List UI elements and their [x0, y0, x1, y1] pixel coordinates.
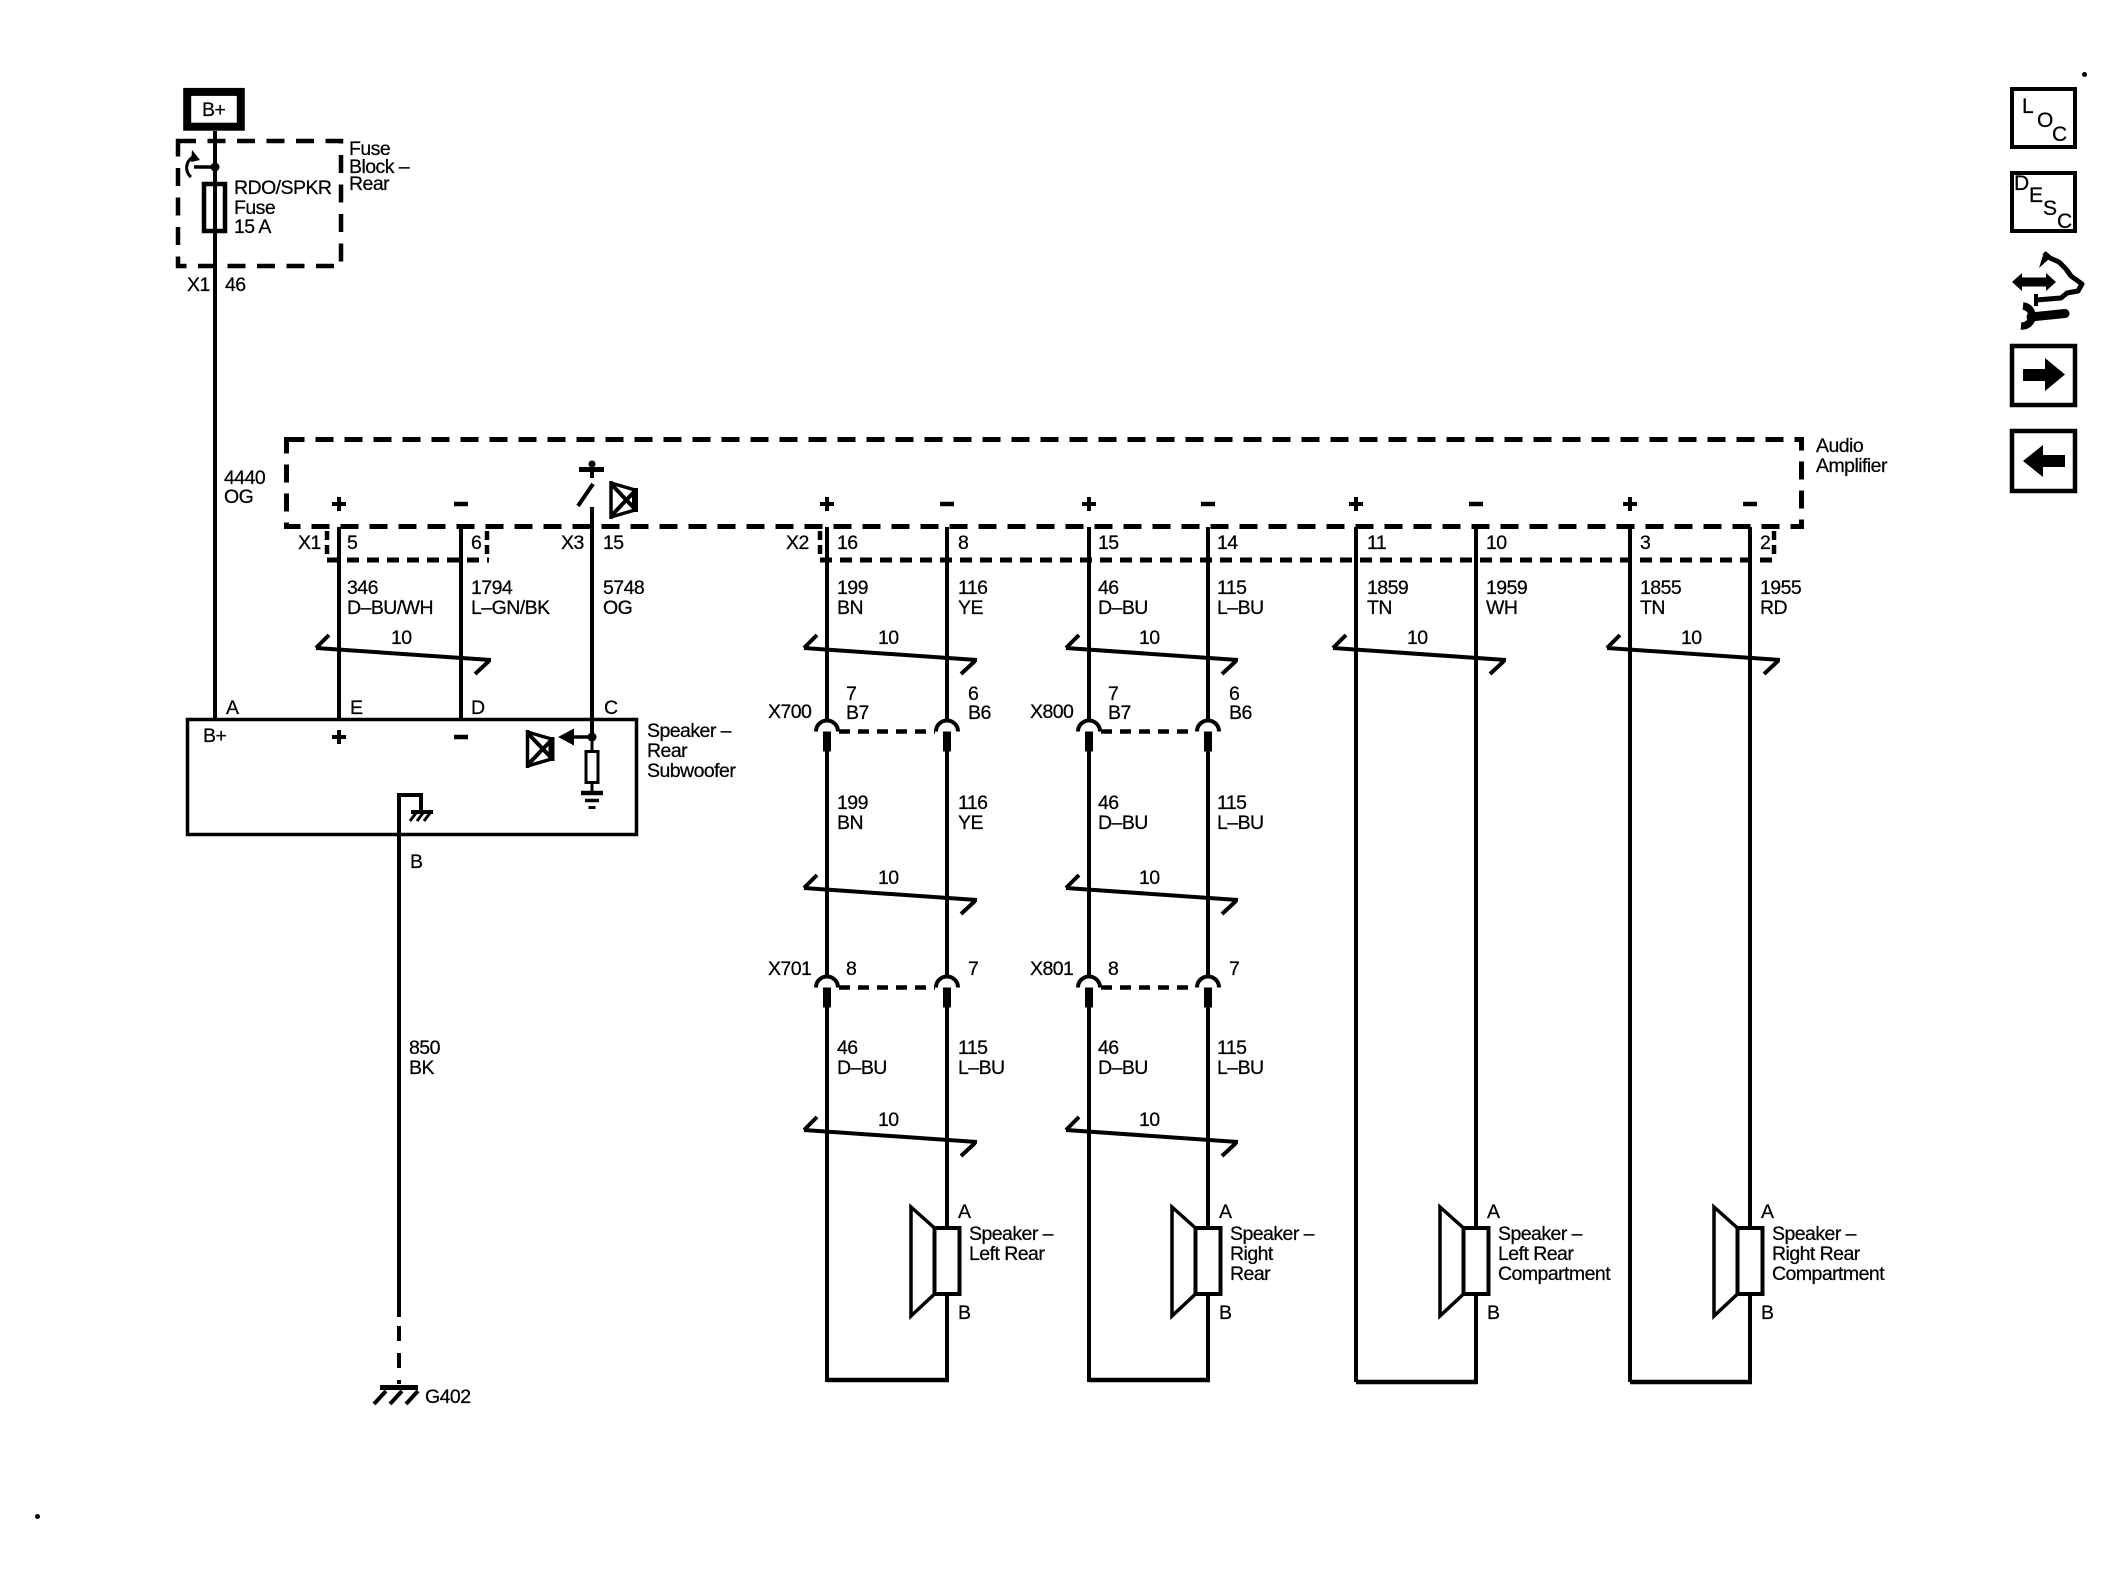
audio amplifier label [1816, 435, 1888, 477]
svg-text:11: 11 [1367, 532, 1386, 554]
connector X801 [1030, 958, 1239, 1008]
svg-text:8: 8 [1108, 958, 1118, 980]
wire 46 D-BU segment X801-speaker [1087, 1008, 1091, 1383]
twisted pair mark (1356,1476) y648 [1333, 627, 1506, 674]
svg-text:10: 10 [878, 1109, 899, 1131]
svg-text:C: C [604, 697, 618, 719]
svg-text:X801: X801 [1030, 958, 1073, 980]
svg-text:X800: X800 [1030, 701, 1074, 723]
wire label 199 BN mid [837, 792, 868, 834]
wire label 46 D-BU mid [1098, 792, 1148, 834]
wire 46 D-BU segment X800-X801 [1087, 751, 1091, 977]
pin 15 number label x592 [603, 532, 624, 554]
svg-text:OG: OG [603, 597, 632, 619]
svg-text:7: 7 [1229, 958, 1239, 980]
fuse clip symbol [187, 150, 220, 177]
amp + mark x339 [332, 497, 346, 511]
svg-text:5: 5 [347, 532, 358, 554]
svg-text:A: A [958, 1201, 971, 1223]
svg-text:Audio: Audio [1816, 435, 1864, 457]
wire 1959 WH run upper [1474, 527, 1478, 1228]
wire B+ feed [213, 131, 217, 270]
svg-text:46: 46 [837, 1037, 858, 1059]
svg-text:E: E [2029, 184, 2043, 207]
subwoofer label [647, 720, 736, 782]
amp + mark x1089 [1082, 497, 1096, 511]
twisted pair mark (1089,1208) y888 [1066, 867, 1238, 914]
svg-text:Speaker –: Speaker – [1772, 1223, 1857, 1245]
node C junction dot [588, 719, 597, 742]
svg-text:346: 346 [347, 577, 378, 599]
svg-text:10: 10 [391, 627, 412, 649]
svg-text:X701: X701 [768, 958, 811, 980]
wire label 46 D–BU [1098, 577, 1148, 619]
wire 850 BK dashed segment [397, 1326, 401, 1384]
svg-text:B6: B6 [1229, 702, 1252, 724]
connector X2 label [786, 532, 809, 554]
connector X2 bracket [820, 531, 1774, 560]
svg-text:YE: YE [958, 812, 983, 834]
svg-text:Rear: Rear [647, 740, 688, 762]
speaker right rear [1172, 1201, 1315, 1324]
svg-text:A: A [1487, 1201, 1500, 1223]
loop wire pair3 [1356, 1294, 1478, 1384]
wire label 115 L-BU mid [1217, 792, 1264, 834]
amp - mark x1476 [1469, 502, 1483, 507]
svg-text:B: B [1487, 1302, 1499, 1324]
svg-text:TN: TN [1640, 597, 1665, 619]
wire 115 L-BU segment X801-speaker [1206, 1008, 1210, 1229]
svg-text:1794: 1794 [471, 577, 513, 599]
wire 850 BK [399, 793, 441, 1317]
wire 199 BN segment amp-X700 [825, 527, 829, 721]
twisted pair mark (339,461) y648 [316, 627, 491, 674]
svg-text:Speaker –: Speaker – [1230, 1223, 1315, 1245]
svg-text:BN: BN [837, 812, 863, 834]
connector X3 label [561, 532, 584, 554]
twisted pair mark (827,947) y1130 [804, 1109, 977, 1156]
svg-text:D: D [2014, 172, 2029, 195]
ground G402 [374, 1386, 471, 1408]
svg-text:B: B [1761, 1302, 1773, 1324]
wire label 1794 L–GN/BK [471, 577, 550, 619]
wire label 346 D–BU/WH [347, 577, 433, 619]
wire 346 D-BU/WH segment [337, 527, 341, 718]
svg-text:S: S [2043, 197, 2057, 220]
svg-text:1859: 1859 [1367, 577, 1408, 599]
speaker left rear compartment [1440, 1201, 1611, 1324]
connector X700 [768, 683, 991, 752]
page mark top right [2082, 72, 2087, 77]
svg-text:G402: G402 [425, 1386, 471, 1408]
pin 14 number label x1208 [1217, 532, 1238, 554]
amp - mark x947 [940, 502, 954, 507]
wire 116 YE segment amp-X700 [945, 527, 949, 721]
amp tap symbol X3 [578, 461, 604, 507]
svg-text:2: 2 [1760, 532, 1770, 554]
svg-text:B: B [1219, 1302, 1231, 1324]
svg-text:Right Rear: Right Rear [1772, 1243, 1861, 1265]
svg-text:YE: YE [958, 597, 983, 619]
svg-text:L–BU: L–BU [958, 1057, 1005, 1079]
pin 10 number label x1476 [1486, 532, 1507, 554]
svg-text:6: 6 [471, 532, 481, 554]
subwoofer pin letters [226, 697, 618, 719]
wire 5748 OG segment [590, 507, 594, 718]
twisted pair mark (1089,1208) y1130 [1066, 1109, 1238, 1156]
subwoofer - terminal [454, 735, 468, 740]
fuse RDO/SPKR 15 A [204, 177, 332, 238]
svg-text:1959: 1959 [1486, 577, 1527, 599]
svg-text:B7: B7 [846, 702, 869, 724]
wire 46 D-BU segment X701-speaker [825, 1008, 829, 1383]
connector X1 label [298, 532, 321, 554]
pin 6 number label x461 [471, 532, 481, 554]
svg-text:C: C [2057, 210, 2072, 233]
subwoofer chassis ground (pin B) [399, 795, 433, 821]
svg-text:O: O [2037, 109, 2053, 132]
loop wire pair2 [1089, 1294, 1210, 1382]
icon wrench [2021, 306, 2065, 326]
pin 15 number label x1089 [1098, 532, 1119, 554]
svg-text:A: A [1761, 1201, 1774, 1223]
svg-text:Speaker –: Speaker – [647, 720, 732, 742]
wire label 1859 TN [1367, 577, 1408, 619]
svg-text:WH: WH [1486, 597, 1517, 619]
svg-text:X1: X1 [298, 532, 321, 554]
connector X701 [768, 958, 978, 1008]
subwoofer B+ terminal [203, 725, 226, 747]
subwoofer earth ground [581, 793, 603, 808]
svg-text:D: D [471, 697, 485, 719]
svg-text:10: 10 [1139, 867, 1160, 889]
wire label 1855 TN [1640, 577, 1682, 619]
svg-text:A: A [226, 697, 239, 719]
subwoofer internal resistor [586, 737, 598, 791]
svg-text:Left Rear: Left Rear [1498, 1243, 1574, 1265]
svg-text:3: 3 [1640, 532, 1650, 554]
svg-text:10: 10 [878, 867, 899, 889]
wire label 199 BN [837, 577, 868, 619]
audio amplifier box [287, 440, 1802, 527]
wire label 46 D-BU lower [837, 1037, 887, 1079]
wire 116 YE segment X700-X701 [945, 751, 949, 977]
icon right arrow box [2012, 346, 2075, 405]
wire label 46 D-BU lower2 [1098, 1037, 1148, 1079]
speaker left rear [911, 1201, 1054, 1324]
svg-text:10: 10 [1407, 627, 1428, 649]
amp - mark x1208 [1201, 502, 1215, 507]
svg-text:10: 10 [1139, 627, 1160, 649]
svg-text:TN: TN [1367, 597, 1392, 619]
fuse block label Fuse Block - Rear [349, 138, 410, 195]
wire 199 BN segment X700-X701 [825, 751, 829, 977]
svg-text:B+: B+ [202, 99, 225, 121]
svg-text:10: 10 [1139, 1109, 1160, 1131]
wire 115 L-BU segment amp-X800 [1206, 527, 1210, 721]
icon component double arrow [2012, 273, 2056, 291]
svg-text:Subwoofer: Subwoofer [647, 760, 736, 782]
svg-text:1855: 1855 [1640, 577, 1682, 599]
subwoofer + terminal [332, 730, 346, 744]
svg-text:L: L [2022, 95, 2033, 118]
svg-text:D–BU: D–BU [837, 1057, 887, 1079]
svg-text:Speaker –: Speaker – [1498, 1223, 1583, 1245]
loop wire pair1 [827, 1294, 949, 1382]
svg-text:D–BU/WH: D–BU/WH [347, 597, 433, 619]
wire label 116 YE [958, 577, 987, 619]
svg-text:X2: X2 [786, 532, 809, 554]
wire 1859 TN run [1354, 527, 1358, 1382]
wire 115 L-BU segment X800-X801 [1206, 751, 1210, 977]
wire 115 L-BU segment X701-speaker [945, 1008, 949, 1229]
pin 11 number label x1356 [1367, 532, 1386, 554]
svg-text:16: 16 [837, 532, 858, 554]
svg-text:115: 115 [958, 1037, 988, 1059]
svg-text:B: B [958, 1302, 970, 1324]
svg-text:115: 115 [1217, 577, 1247, 599]
wire label 1955 RD [1760, 577, 1802, 619]
svg-text:L–BU: L–BU [1217, 1057, 1264, 1079]
svg-text:116: 116 [958, 577, 987, 599]
pin 16 number label x827 [837, 532, 858, 554]
svg-text:15 A: 15 A [234, 216, 271, 238]
svg-text:B: B [410, 851, 422, 873]
amp + mark x1356 [1349, 497, 1363, 511]
svg-text:RD: RD [1760, 597, 1788, 619]
wire 1955 RD run upper [1748, 527, 1752, 1228]
svg-text:46: 46 [1098, 577, 1119, 599]
svg-text:X1: X1 [187, 274, 210, 296]
amp - mark x461 [454, 502, 468, 507]
svg-text:10: 10 [1486, 532, 1507, 554]
wire label 1959 WH [1486, 577, 1527, 619]
svg-text:Rear: Rear [1230, 1263, 1271, 1285]
svg-text:L–BU: L–BU [1217, 812, 1264, 834]
svg-text:BN: BN [837, 597, 863, 619]
connector X1 pin 46 label [187, 274, 246, 296]
wire label 5748 OG [603, 577, 644, 619]
amp - mark x1750 [1743, 502, 1757, 507]
icon DESC box [2012, 172, 2075, 233]
wire label 115 L-BU lower2 [1217, 1037, 1264, 1079]
twisted pair mark (827,947) y888 [804, 867, 977, 914]
icon LOC box [2012, 89, 2075, 147]
amp + mark x1630 [1623, 497, 1637, 511]
svg-text:D–BU: D–BU [1098, 1057, 1148, 1079]
svg-text:46: 46 [225, 274, 246, 296]
svg-text:5748: 5748 [603, 577, 644, 599]
svg-text:BK: BK [409, 1057, 434, 1079]
wire 1855 TN run [1628, 527, 1632, 1382]
amp + mark x827 [820, 497, 834, 511]
connector X800 [1030, 683, 1252, 752]
svg-text:199: 199 [837, 577, 868, 599]
svg-text:Left Rear: Left Rear [969, 1243, 1045, 1265]
svg-text:46: 46 [1098, 1037, 1119, 1059]
svg-text:10: 10 [1681, 627, 1702, 649]
pin B letter [410, 851, 422, 873]
amp muted-speaker icon [611, 481, 635, 519]
wire 46 D-BU segment amp-X800 [1087, 527, 1091, 721]
svg-text:Compartment: Compartment [1772, 1263, 1885, 1285]
svg-text:Amplifier: Amplifier [1816, 455, 1888, 477]
wire label 115 L-BU lower [958, 1037, 1005, 1079]
icon left arrow box [2012, 431, 2075, 491]
svg-text:OG: OG [224, 486, 253, 508]
svg-text:8: 8 [958, 532, 968, 554]
svg-text:L–GN/BK: L–GN/BK [471, 597, 550, 619]
pin 5 number label x339 [347, 532, 358, 554]
svg-text:1955: 1955 [1760, 577, 1802, 599]
pin 2 number label x1750 [1760, 532, 1770, 554]
fuse block box [178, 141, 341, 266]
svg-text:X700: X700 [768, 701, 812, 723]
pin 8 number label x947 [958, 532, 968, 554]
svg-text:D–BU: D–BU [1098, 812, 1148, 834]
svg-text:Compartment: Compartment [1498, 1263, 1611, 1285]
twisted pair mark (1089,1208) y648 [1066, 627, 1238, 674]
svg-text:15: 15 [603, 532, 624, 554]
svg-text:Right: Right [1230, 1243, 1274, 1265]
loop wire pair4 [1630, 1294, 1752, 1384]
svg-text:199: 199 [837, 792, 868, 814]
page mark bottom left [35, 1514, 40, 1519]
svg-text:D–BU: D–BU [1098, 597, 1148, 619]
svg-text:X3: X3 [561, 532, 584, 554]
svg-text:46: 46 [1098, 792, 1119, 814]
wire 4440 OG [215, 270, 266, 718]
connector X1 bracket [327, 531, 489, 560]
svg-text:Rear: Rear [349, 173, 390, 195]
twisted pair mark (827,947) y648 [804, 627, 977, 674]
wire 1794 L-GN/BK segment [459, 527, 463, 718]
svg-text:7: 7 [968, 958, 978, 980]
subwoofer arrow to node [558, 729, 590, 746]
svg-text:850: 850 [409, 1037, 441, 1059]
svg-text:115: 115 [1217, 1037, 1247, 1059]
svg-text:14: 14 [1217, 532, 1238, 554]
subwoofer muted-speaker icon [528, 730, 552, 768]
icon component outline [2036, 252, 2082, 306]
svg-text:Speaker –: Speaker – [969, 1223, 1054, 1245]
twisted pair mark (1630,1750) y648 [1607, 627, 1780, 674]
svg-text:E: E [350, 697, 363, 719]
svg-text:L–BU: L–BU [1217, 597, 1264, 619]
speaker rear subwoofer box [188, 720, 637, 835]
svg-text:10: 10 [878, 627, 899, 649]
svg-text:15: 15 [1098, 532, 1119, 554]
svg-text:B+: B+ [203, 725, 226, 747]
svg-text:A: A [1219, 1201, 1232, 1223]
pin 3 number label x1630 [1640, 532, 1650, 554]
speaker right rear compartment [1714, 1201, 1885, 1324]
wire label 116 YE mid [958, 792, 987, 834]
svg-text:8: 8 [846, 958, 856, 980]
svg-text:C: C [2052, 123, 2067, 146]
svg-text:115: 115 [1217, 792, 1247, 814]
svg-text:RDO/SPKR: RDO/SPKR [234, 177, 332, 199]
svg-text:B6: B6 [968, 702, 991, 724]
svg-text:116: 116 [958, 792, 987, 814]
wire label 115 L–BU [1217, 577, 1264, 619]
svg-text:B7: B7 [1108, 702, 1131, 724]
power symbol B+ [187, 92, 241, 127]
